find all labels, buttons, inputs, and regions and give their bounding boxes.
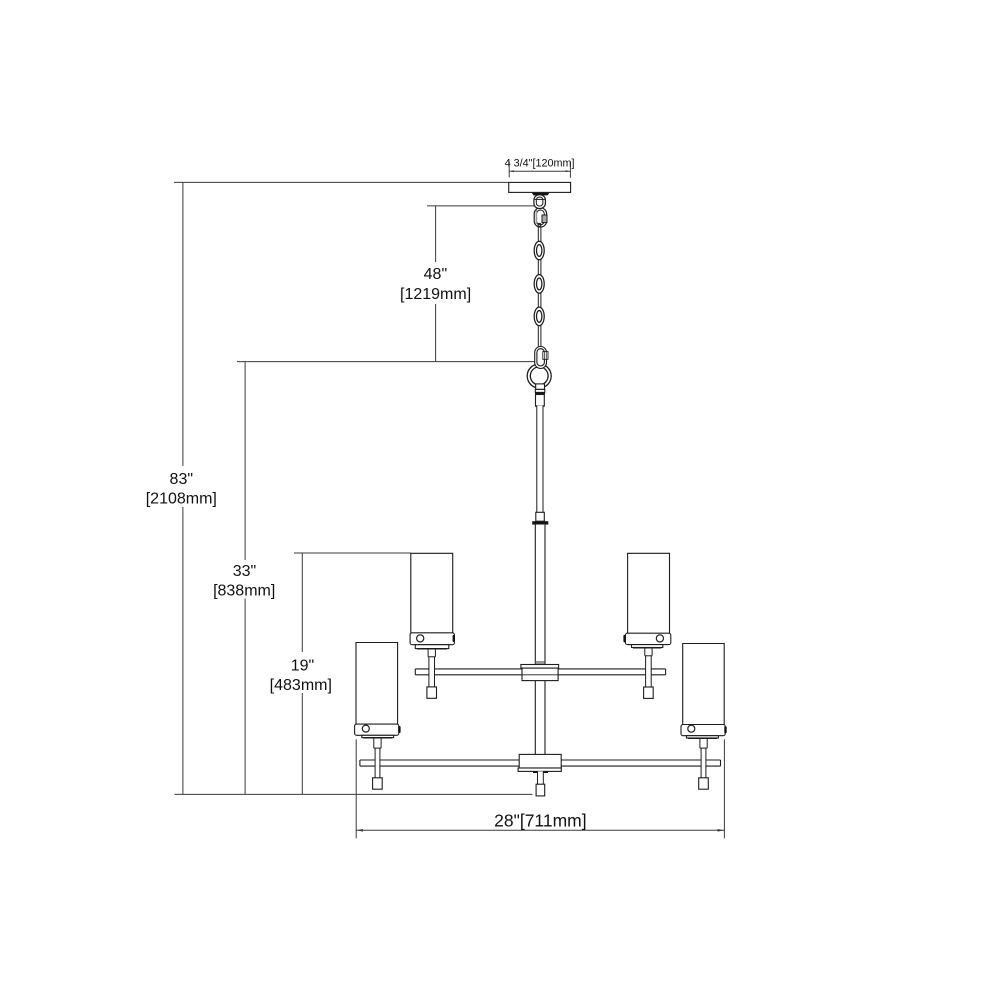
extension line: 28in right (723, 739, 725, 838)
upper-left socket cup (410, 633, 454, 645)
chain edge links (538, 226, 541, 348)
chain link 1 (534, 241, 544, 260)
quick link gate (543, 352, 548, 360)
upper arm bar (415, 669, 665, 675)
collar (536, 395, 545, 406)
stem coupling (536, 512, 545, 521)
svg-text:[838mm]: [838mm] (213, 583, 275, 600)
svg-text:4 3/4"[120mm]: 4 3/4"[120mm] (505, 158, 575, 170)
lower-right cup lip (687, 736, 719, 738)
collar bottom line (535, 405, 544, 407)
hanging ring (527, 364, 551, 388)
upper-left cup nub (453, 635, 455, 642)
label masks (397, 262, 475, 304)
quick link (535, 347, 547, 369)
tick right 4-3/4in (569, 162, 571, 178)
upper-left cup screw (417, 635, 424, 642)
dimension line 19in vertical (301, 553, 303, 794)
canopy nipple (532, 193, 550, 196)
lower-left lamp candle (373, 738, 383, 790)
extension line: top of fixture (83in) (174, 181, 509, 183)
dark divider (535, 392, 545, 394)
lower hub lip (518, 768, 561, 771)
arrowheads 4-3/4in (510, 170, 515, 172)
screw eye loop (534, 195, 546, 209)
tick left 4-3/4in (508, 162, 510, 178)
lower hub body (519, 754, 561, 768)
lower arm bar (360, 760, 721, 766)
upper-right cup nub (623, 635, 625, 642)
svg-text:48": 48" (424, 266, 447, 283)
lower-right socket cup (681, 725, 725, 736)
svg-text:[483mm]: [483mm] (270, 677, 332, 694)
swivel link (534, 208, 546, 227)
lower-left socket cup (355, 724, 399, 735)
svg-text:19": 19" (291, 658, 314, 675)
upper narrow stem (537, 406, 543, 513)
neck band (535, 389, 545, 392)
arrowheads 28in (357, 829, 363, 832)
swivel pivot (538, 223, 541, 226)
center finial (536, 784, 545, 796)
lower-right cup screw (688, 725, 695, 732)
upper hub cap (521, 665, 559, 669)
upper-left cup lip (415, 645, 449, 649)
upper-right cup screw (656, 635, 663, 642)
dimension line 83in vertical (182, 182, 184, 794)
canopy (509, 182, 571, 192)
svg-text:[2108mm]: [2108mm] (146, 491, 217, 508)
upper-right glass shade (628, 553, 670, 633)
chain link 3 (534, 307, 544, 326)
lower hub lip shadow (533, 771, 548, 773)
lower-left cup lip (362, 735, 394, 737)
upper-left glass shade (411, 553, 453, 633)
stem joint above hub (536, 661, 545, 665)
svg-text:[1219mm]: [1219mm] (400, 286, 471, 303)
extension line: ring level (48in bottom / 33in top) (237, 361, 535, 363)
chain link 2 (534, 275, 544, 294)
lower-left cup screw (362, 725, 369, 732)
upper-right cup lip (632, 645, 663, 648)
extension line: upper shade top (19in top) (294, 552, 411, 554)
main stem (535, 525, 545, 755)
dimension line 28in horizontal (356, 829, 724, 831)
svg-text:28"[711mm]: 28"[711mm] (494, 811, 586, 831)
upper-left lamp candle (427, 649, 437, 699)
lower-left cup nub (398, 726, 400, 733)
lower-left glass shade (356, 643, 398, 725)
line through hub (522, 674, 558, 676)
dimension line 33in vertical (244, 362, 246, 795)
upper hub body (522, 668, 558, 681)
upper-right lamp candle (644, 648, 654, 699)
lower-right glass shade (683, 644, 725, 725)
swivel gate (542, 215, 547, 223)
dimension line 4-3/4in horizontal (509, 170, 570, 172)
eye cross line (535, 198, 545, 200)
swivel shading (535, 210, 537, 224)
lower-right cup nub (724, 726, 726, 733)
upper-right socket cup (625, 633, 670, 644)
ring neck (536, 384, 545, 390)
extension line: chain top (48in) (427, 205, 535, 207)
svg-text:33": 33" (233, 563, 256, 580)
extension line: fixture bottom (174, 793, 532, 795)
extension line: 28in left (355, 739, 357, 838)
dimension line 48in vertical (435, 206, 437, 362)
stem flange (532, 521, 548, 524)
svg-text:83": 83" (170, 471, 193, 488)
center drop stem (538, 771, 544, 784)
lower-right lamp candle (699, 738, 709, 790)
